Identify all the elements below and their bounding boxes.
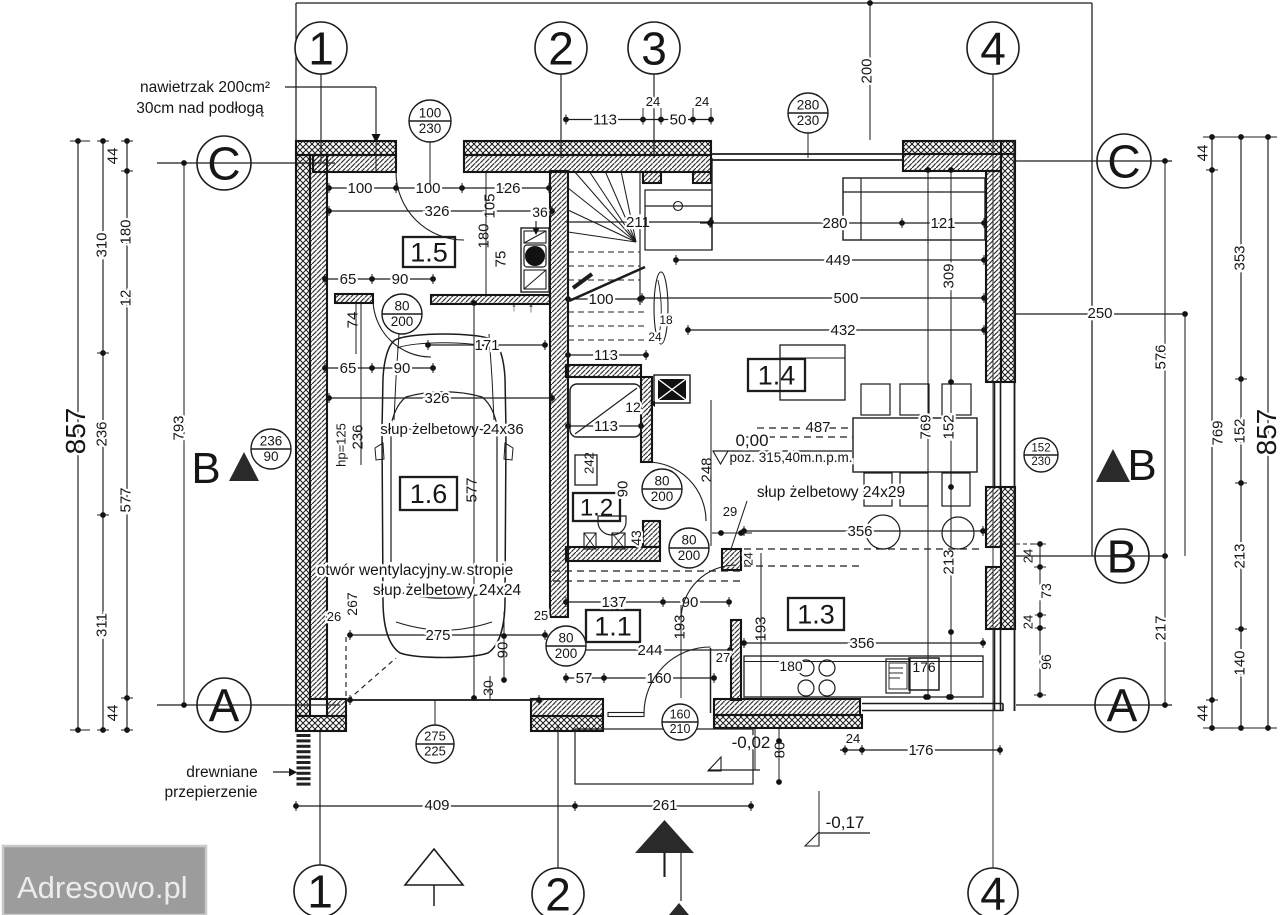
svg-text:96: 96 (1038, 654, 1054, 670)
svg-text:80: 80 (654, 474, 669, 489)
svg-text:217: 217 (1152, 615, 1169, 640)
svg-text:44: 44 (1194, 705, 1211, 722)
svg-text:500: 500 (833, 290, 858, 307)
svg-text:171: 171 (474, 337, 499, 354)
svg-text:248: 248 (698, 457, 715, 482)
svg-text:577: 577 (117, 487, 134, 512)
svg-text:200: 200 (391, 314, 414, 329)
svg-text:-0,17: -0,17 (826, 813, 865, 832)
svg-text:140: 140 (1231, 650, 1248, 675)
svg-text:100: 100 (347, 180, 372, 197)
svg-text:857: 857 (1251, 409, 1280, 456)
svg-text:12: 12 (625, 399, 641, 415)
svg-text:230: 230 (797, 113, 820, 128)
svg-text:12: 12 (117, 290, 134, 307)
svg-text:hp=125: hp=125 (334, 423, 349, 467)
svg-text:309: 309 (940, 263, 957, 288)
svg-text:200: 200 (555, 646, 578, 661)
svg-text:80: 80 (681, 533, 696, 548)
svg-text:24: 24 (846, 731, 860, 746)
svg-text:słup żelbetowy 24x29: słup żelbetowy 24x29 (757, 484, 905, 501)
svg-text:211: 211 (626, 214, 650, 231)
svg-text:113: 113 (594, 418, 618, 435)
svg-text:90: 90 (494, 642, 511, 659)
svg-text:576: 576 (1152, 344, 1169, 369)
svg-text:90: 90 (392, 271, 409, 288)
svg-text:311: 311 (93, 613, 110, 637)
svg-text:769: 769 (917, 414, 934, 439)
svg-text:213: 213 (940, 549, 957, 574)
svg-text:113: 113 (594, 347, 618, 364)
svg-text:180: 180 (779, 658, 803, 674)
svg-text:44: 44 (104, 148, 121, 165)
svg-text:44: 44 (1194, 145, 1211, 162)
svg-text:74: 74 (344, 312, 361, 329)
svg-text:29: 29 (723, 504, 737, 519)
svg-text:275: 275 (424, 729, 446, 744)
svg-text:25: 25 (534, 608, 548, 623)
svg-text:200: 200 (651, 489, 674, 504)
svg-text:280: 280 (797, 98, 820, 113)
svg-text:242: 242 (582, 452, 597, 474)
svg-text:24: 24 (741, 552, 755, 566)
svg-text:57: 57 (576, 670, 593, 687)
svg-text:↑: ↑ (528, 300, 535, 315)
svg-text:193: 193 (671, 614, 688, 639)
svg-text:-0,02: -0,02 (732, 733, 771, 752)
svg-text:353: 353 (1231, 245, 1248, 270)
svg-text:65: 65 (340, 360, 357, 377)
svg-text:200: 200 (678, 548, 701, 563)
svg-text:180: 180 (475, 223, 492, 248)
svg-text:26: 26 (327, 609, 341, 624)
svg-text:236: 236 (93, 421, 110, 446)
svg-text:1.5: 1.5 (410, 238, 448, 268)
svg-text:267: 267 (344, 592, 360, 616)
svg-text:73: 73 (1038, 583, 1054, 599)
svg-text:250: 250 (1087, 305, 1112, 322)
svg-text:B: B (191, 444, 220, 493)
svg-text:326: 326 (424, 203, 449, 220)
svg-text:↑: ↑ (511, 302, 517, 314)
svg-text:105: 105 (481, 193, 498, 218)
svg-text:176: 176 (908, 742, 933, 759)
svg-text:100: 100 (419, 106, 442, 121)
svg-text:30: 30 (480, 680, 496, 696)
svg-text:30cm nad podłogą: 30cm nad podłogą (136, 100, 264, 117)
svg-text:356: 356 (849, 635, 874, 652)
svg-text:261: 261 (652, 797, 677, 814)
svg-text:drewniane: drewniane (186, 764, 258, 781)
svg-text:100: 100 (415, 180, 440, 197)
svg-text:121: 121 (930, 215, 955, 232)
svg-text:225: 225 (424, 744, 446, 759)
svg-text:280: 280 (822, 215, 847, 232)
svg-text:50: 50 (670, 112, 687, 129)
svg-text:487: 487 (805, 419, 830, 436)
svg-text:27: 27 (716, 650, 730, 665)
svg-text:43: 43 (628, 530, 644, 546)
svg-text:137: 137 (601, 594, 626, 611)
svg-text:409: 409 (424, 797, 449, 814)
svg-text:80: 80 (394, 299, 409, 314)
svg-text:1.4: 1.4 (758, 361, 796, 391)
svg-text:152: 152 (1031, 443, 1050, 455)
svg-text:793: 793 (170, 415, 187, 440)
svg-text:przepierzenie: przepierzenie (164, 784, 257, 801)
svg-text:1.1: 1.1 (594, 612, 632, 642)
svg-text:36: 36 (532, 204, 548, 220)
svg-text:236: 236 (349, 424, 366, 449)
svg-text:słup żelbetowy 24x36: słup żelbetowy 24x36 (380, 421, 523, 438)
svg-text:200: 200 (858, 58, 875, 83)
svg-text:176: 176 (912, 659, 936, 675)
svg-text:otwór wentylacyjny w stropie: otwór wentylacyjny w stropie (317, 562, 513, 579)
svg-text:113: 113 (593, 112, 617, 129)
svg-text:1.3: 1.3 (797, 600, 835, 630)
svg-text:poz. 315,40m.n.p.m.: poz. 315,40m.n.p.m. (729, 450, 852, 465)
svg-text:24: 24 (1021, 615, 1036, 629)
svg-text:213: 213 (1231, 543, 1248, 568)
svg-text:326: 326 (424, 390, 449, 407)
svg-text:słup żelbetowy 24x24: słup żelbetowy 24x24 (373, 582, 522, 599)
svg-text:0,00: 0,00 (735, 431, 768, 450)
svg-text:275: 275 (425, 627, 450, 644)
svg-text:1: 1 (308, 23, 334, 75)
svg-text:210: 210 (670, 722, 691, 736)
svg-text:310: 310 (93, 232, 110, 257)
svg-text:1.2: 1.2 (580, 495, 613, 522)
svg-text:4: 4 (980, 868, 1006, 915)
svg-text:B: B (1127, 441, 1156, 490)
svg-text:230: 230 (419, 121, 442, 136)
svg-text:Adresowo.pl: Adresowo.pl (17, 870, 188, 905)
svg-text:80: 80 (558, 631, 573, 646)
svg-text:80: 80 (771, 742, 788, 759)
svg-text:152: 152 (940, 414, 957, 439)
svg-text:857: 857 (60, 408, 91, 455)
svg-text:126: 126 (495, 180, 520, 197)
svg-text:236: 236 (260, 434, 283, 449)
svg-text:75: 75 (492, 251, 509, 268)
svg-text:180: 180 (117, 219, 134, 244)
svg-text:449: 449 (825, 252, 850, 269)
svg-text:18: 18 (659, 313, 673, 327)
svg-text:1: 1 (307, 866, 333, 915)
svg-text:100: 100 (588, 291, 613, 308)
svg-text:244: 244 (637, 642, 662, 659)
svg-text:769: 769 (1209, 420, 1226, 445)
svg-text:2: 2 (545, 869, 571, 915)
svg-text:90: 90 (394, 360, 411, 377)
svg-text:90: 90 (263, 449, 278, 464)
svg-text:356: 356 (847, 523, 872, 540)
svg-text:24: 24 (695, 94, 709, 109)
svg-text:577: 577 (463, 477, 480, 502)
svg-text:4: 4 (980, 23, 1006, 75)
svg-text:90: 90 (614, 481, 631, 498)
svg-text:65: 65 (340, 271, 357, 288)
svg-text:152: 152 (1231, 418, 1248, 443)
svg-text:230: 230 (1031, 456, 1050, 468)
svg-text:1.6: 1.6 (410, 479, 448, 509)
svg-text:44: 44 (104, 705, 121, 722)
svg-text:2: 2 (548, 23, 574, 75)
svg-text:24: 24 (648, 330, 662, 344)
svg-text:3: 3 (641, 23, 667, 75)
svg-text:432: 432 (830, 322, 855, 339)
svg-text:160: 160 (670, 708, 691, 722)
svg-text:24: 24 (646, 94, 660, 109)
svg-text:nawietrzak 200cm²: nawietrzak 200cm² (140, 79, 270, 96)
